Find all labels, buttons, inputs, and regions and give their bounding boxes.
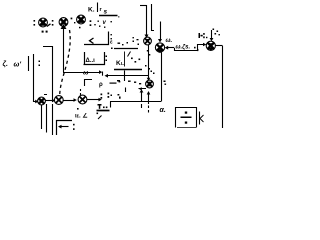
Q output arrow into R bbox=[87, 99, 99, 101]
FA denominator marks bbox=[128, 52, 131, 57]
wire into S from below bbox=[148, 94, 150, 105]
svg-text:ε: ε bbox=[110, 40, 113, 46]
verticals below D row bbox=[41, 105, 43, 129]
denominator dots bbox=[98, 21, 112, 28]
dot left of FA bar bbox=[111, 48, 113, 50]
comma after wsl label bbox=[194, 47, 198, 51]
junction step W1-W2 bbox=[102, 72, 104, 76]
riser line L2 bbox=[152, 4, 155, 31]
dashed riser crossing R output bbox=[139, 88, 145, 90]
colon label bbox=[39, 61, 41, 67]
caret above S corner bbox=[151, 71, 155, 75]
feedback stub top bbox=[140, 5, 147, 7]
block B3 bottom and right edges bbox=[84, 52, 105, 65]
long bar with corner into D bbox=[34, 54, 36, 102]
fraction F2 bar bbox=[114, 69, 142, 71]
vertical i2 bbox=[46, 104, 48, 133]
long vertical from corner top bbox=[43, 47, 53, 103]
block R lower text bbox=[98, 104, 108, 109]
block R underline bbox=[97, 110, 110, 112]
B4 arrow marks bbox=[110, 81, 121, 84]
fraction bar G1 bbox=[99, 15, 118, 17]
multiplier C bbox=[206, 41, 215, 51]
marks right above C bbox=[213, 29, 220, 36]
svg-text:s: s bbox=[104, 9, 108, 16]
F2 denominator marks bbox=[117, 80, 141, 84]
right feedback vertical bbox=[222, 46, 224, 128]
svg-text:ω.: ω. bbox=[166, 38, 173, 44]
label K above C bbox=[199, 33, 208, 38]
wire wsl bbox=[175, 45, 204, 51]
fraction bar FA bbox=[114, 48, 138, 50]
colon right of B3 bbox=[106, 56, 108, 62]
wire into S from W2 corner bbox=[148, 76, 150, 79]
svg-text:ω.ζs.: ω.ζs. bbox=[176, 45, 191, 51]
svg-text:α.: α. bbox=[160, 107, 166, 114]
block R text bbox=[101, 93, 121, 99]
label k in B2 bbox=[90, 38, 94, 44]
label k right of divider bbox=[199, 112, 201, 125]
E output arrow bbox=[64, 100, 75, 102]
block B2 bottom and right edges bbox=[84, 32, 109, 45]
node X1 plus-minus marks bbox=[34, 20, 36, 26]
svg-text:ρ: ρ bbox=[99, 82, 103, 88]
summing junction A bbox=[155, 43, 164, 53]
multiplier S bbox=[146, 80, 154, 88]
dashes above Q bbox=[80, 89, 82, 95]
arrowhead into D bbox=[35, 100, 38, 104]
bottom-left box corner bbox=[57, 121, 73, 136]
colon right of S3 bbox=[90, 20, 96, 26]
dots right of F2 bbox=[145, 65, 150, 70]
arrowhead into C bbox=[203, 43, 206, 47]
tiny label ids bbox=[111, 34, 140, 45]
svg-text:ω: ω bbox=[83, 70, 89, 77]
tiny label near P bbox=[133, 37, 139, 42]
riser into C from top bbox=[211, 30, 213, 39]
block B4 corner left bbox=[85, 80, 93, 87]
dashed curve from top to E bbox=[60, 30, 71, 95]
block G1 left edge bbox=[97, 3, 99, 13]
R step bbox=[110, 102, 112, 108]
output wire of R to corner bbox=[110, 101, 161, 103]
F2 numerator tick bbox=[124, 52, 126, 67]
S1 wedge tail bbox=[47, 24, 51, 27]
summing junction S3 bbox=[77, 15, 86, 24]
multiplier P bbox=[144, 37, 152, 45]
divide sign bbox=[181, 112, 192, 124]
divider block bbox=[176, 108, 197, 128]
F2 denominator T stem bbox=[124, 71, 126, 82]
dot below S3 bbox=[79, 27, 81, 29]
summing junction Q bbox=[78, 95, 87, 104]
plus-minus marks node X2 bbox=[52, 20, 54, 26]
arrowhead end W1 bbox=[99, 70, 102, 74]
D to E wire bbox=[46, 100, 53, 102]
marks between S2 and S3 bbox=[71, 18, 76, 24]
svg-text:Δ..ι: Δ..ι bbox=[86, 58, 96, 64]
wire W2 with left arrowhead bbox=[106, 75, 149, 77]
junction D bbox=[38, 97, 46, 105]
svg-text:Kι.: Kι. bbox=[116, 60, 124, 67]
S output dashed left bbox=[142, 88, 147, 90]
dots below S1 bbox=[42, 31, 48, 33]
summing junction S1 bbox=[39, 18, 48, 27]
arrowhead into P bbox=[145, 35, 149, 39]
svg-text:ζ.: ζ. bbox=[3, 61, 8, 68]
minus marks left of A bbox=[147, 50, 151, 56]
mark right above S bbox=[164, 81, 167, 85]
tick below R underline bbox=[98, 116, 102, 120]
wire riser into S2 from below bbox=[63, 27, 65, 72]
bottom-left arrow bbox=[60, 126, 69, 128]
summing junction S2 bbox=[59, 18, 68, 29]
dash above D bbox=[44, 94, 47, 96]
svg-text:ω': ω' bbox=[14, 62, 22, 69]
svg-text:K.: K. bbox=[88, 7, 95, 14]
arrowhead into A bbox=[158, 39, 162, 43]
bottom-left colon bbox=[73, 108, 79, 130]
wire lower segment bbox=[52, 104, 54, 135]
svg-text:ιε. ∠: ιε. ∠ bbox=[75, 113, 88, 120]
C output to right corner bbox=[215, 45, 222, 47]
wire W1 horizontal bbox=[63, 72, 99, 74]
short bar bbox=[28, 56, 30, 71]
riser into A bbox=[160, 22, 162, 41]
summing junction E bbox=[54, 96, 63, 105]
hanging stub above R bbox=[125, 88, 127, 93]
wire P down to S corner bbox=[148, 45, 150, 76]
feedback riser into P bbox=[146, 5, 148, 36]
arrow into A from right bbox=[166, 47, 174, 49]
corner riser up to A bbox=[161, 53, 163, 102]
